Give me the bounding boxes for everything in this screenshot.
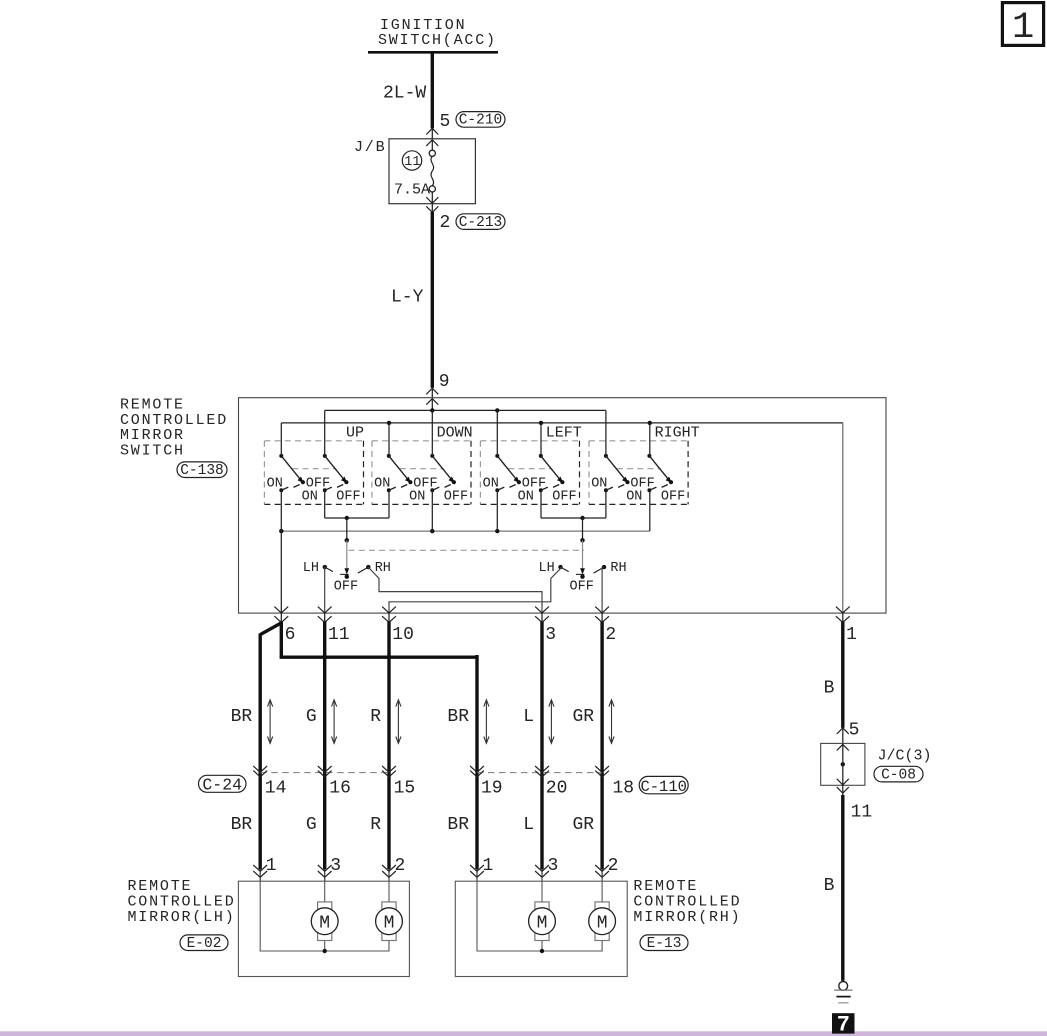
svg-text:15: 15 xyxy=(394,778,416,798)
svg-text:BR: BR xyxy=(231,815,253,835)
mirror pin 2 xyxy=(595,856,618,878)
wire RIGHT-A ON down xyxy=(605,490,607,518)
svg-text:C-08: C-08 xyxy=(881,767,916,783)
ground symbol xyxy=(834,982,852,1003)
junction xyxy=(580,516,584,520)
trunk wire 18/GR xyxy=(600,622,603,870)
trunk wire 16/G xyxy=(323,622,326,870)
exit stubs xyxy=(281,613,843,622)
svg-text:R: R xyxy=(370,707,381,727)
mirror pin 1 xyxy=(470,856,493,878)
svg-text:11: 11 xyxy=(404,155,420,170)
wire to LH/RH selector 1 pole xyxy=(346,518,348,540)
svg-text:1: 1 xyxy=(1012,7,1034,49)
pin 10 exit xyxy=(382,607,414,645)
mirror switch box C-138 xyxy=(239,398,887,613)
RH inner wiring xyxy=(477,877,602,951)
pin 1 exit xyxy=(836,607,857,645)
svg-text:ON: ON xyxy=(518,490,534,505)
svg-text:ON: ON xyxy=(626,490,642,505)
svg-text:RIGHT: RIGHT xyxy=(655,425,700,442)
wire horizontal-motor link xyxy=(541,517,606,519)
switch DOWN-A xyxy=(387,454,413,492)
wire LEFT-B ON down xyxy=(540,490,542,518)
svg-text:ON: ON xyxy=(591,477,607,492)
bus 1 xyxy=(325,409,606,411)
svg-text:BR: BR xyxy=(447,815,469,835)
wire B lower (thick) xyxy=(841,795,844,981)
wire feed LEFT-A xyxy=(496,410,498,456)
motor M (RH vertical) xyxy=(529,902,556,941)
capsule C-24 xyxy=(199,775,247,794)
svg-text:20: 20 xyxy=(546,778,568,798)
mirror box LH xyxy=(238,881,409,976)
wire feed RIGHT-A xyxy=(605,410,607,456)
BR branch bus (thick) xyxy=(280,656,477,659)
fuse 11 xyxy=(402,151,421,170)
pin 6 thick wire continues xyxy=(280,622,283,658)
mirror pin 3 xyxy=(535,856,558,878)
wire feed UP-A xyxy=(280,423,282,456)
switch LEFT-B xyxy=(539,454,565,492)
svg-text:G: G xyxy=(306,707,317,727)
svg-text:7.5A: 7.5A xyxy=(394,182,430,199)
harness arrow xyxy=(332,700,337,744)
svg-text:LEFT: LEFT xyxy=(546,425,582,442)
svg-text:SWITCH(ACC): SWITCH(ACC) xyxy=(378,32,497,49)
svg-text:C-110: C-110 xyxy=(640,778,687,796)
page number box 1 (top right) xyxy=(1002,3,1043,49)
svg-text:2L-W: 2L-W xyxy=(383,84,426,104)
trunk wire 20/L xyxy=(540,622,543,870)
harness arrow xyxy=(396,700,401,744)
connector row C-24 dashed xyxy=(260,772,389,774)
svg-text:2: 2 xyxy=(605,625,616,645)
switch RIGHT-A xyxy=(604,454,630,492)
LH inner wiring xyxy=(260,877,389,951)
jog to BR wire xyxy=(260,623,281,635)
bus2 junction dots xyxy=(387,421,391,425)
wire LEFT-A ON to bus 3 xyxy=(496,490,498,531)
motor M (LH horizontal) xyxy=(376,902,403,941)
svg-text:7: 7 xyxy=(837,1012,850,1036)
svg-text:C-138: C-138 xyxy=(180,463,224,479)
wire UP-B ON down xyxy=(324,490,326,518)
svg-text:11: 11 xyxy=(328,625,350,645)
connector pin 19 xyxy=(470,766,503,798)
svg-text:18: 18 xyxy=(613,778,635,798)
svg-text:1: 1 xyxy=(846,625,857,645)
svg-text:R: R xyxy=(370,815,381,835)
mechanical linkage (dashed) xyxy=(349,549,585,551)
connector pin 15 xyxy=(382,766,415,798)
crossover wire to pin 3 xyxy=(368,567,542,613)
dashed box RIGHT xyxy=(589,440,688,442)
wire B upper (thick) xyxy=(841,622,844,728)
junction xyxy=(345,516,349,520)
svg-text:ON: ON xyxy=(267,477,283,492)
svg-text:5: 5 xyxy=(440,112,451,132)
pin 3 exit xyxy=(535,607,556,645)
J/C(3) box xyxy=(821,743,865,785)
svg-text:2: 2 xyxy=(608,856,619,876)
wire feed DOWN-B xyxy=(431,410,433,456)
wire RIGHT-B ON to bus 3 xyxy=(649,490,651,531)
mirror pin 1 xyxy=(253,856,276,878)
bottom lavender strip xyxy=(0,1031,1047,1036)
pin 1 wire inside box xyxy=(842,423,844,613)
mirror box RH xyxy=(455,881,627,976)
svg-text:ON: ON xyxy=(302,490,318,505)
svg-text:E-02: E-02 xyxy=(187,936,222,952)
wire L-Y (thick feed) xyxy=(431,212,434,388)
switch DOWN-B xyxy=(430,454,456,492)
section DOWN xyxy=(372,425,473,505)
pin 11 exit xyxy=(318,607,350,645)
mirror entry stubs xyxy=(260,869,602,881)
svg-text:2: 2 xyxy=(395,856,406,876)
svg-text:L-Y: L-Y xyxy=(391,287,424,307)
svg-text:MIRROR(LH): MIRROR(LH) xyxy=(128,909,236,926)
harness arrow xyxy=(268,700,273,744)
svg-text:C-210: C-210 xyxy=(459,113,503,129)
svg-text:ON: ON xyxy=(374,477,390,492)
harness arrow xyxy=(549,700,554,744)
svg-text:OFF: OFF xyxy=(661,490,685,505)
wire feed RIGHT-B xyxy=(649,423,651,456)
crossover wire to pin 10 xyxy=(389,567,562,613)
motor M (LH vertical) xyxy=(311,902,338,941)
trunk wire 14/BR xyxy=(259,634,262,870)
svg-text:L: L xyxy=(523,707,534,727)
svg-text:OFF: OFF xyxy=(336,490,360,505)
connector row C-110 dashed xyxy=(477,772,602,774)
J/C junction dot xyxy=(841,762,845,766)
page link box 7 xyxy=(832,1012,855,1036)
wire feed DOWN-A xyxy=(388,423,390,456)
svg-text:ON: ON xyxy=(483,477,499,492)
svg-text:9: 9 xyxy=(439,372,450,392)
svg-text:B: B xyxy=(824,876,835,896)
pin 2 wire xyxy=(601,567,603,613)
wire feed UP-B xyxy=(324,410,326,456)
svg-text:BR: BR xyxy=(231,707,253,727)
harness arrow xyxy=(609,700,614,744)
svg-text:C-213: C-213 xyxy=(459,215,503,231)
dashed box LEFT xyxy=(480,440,579,442)
svg-text:3: 3 xyxy=(545,625,556,645)
svg-text:19: 19 xyxy=(481,778,503,798)
pin 6 wire inside box xyxy=(280,490,282,613)
svg-text:1: 1 xyxy=(266,856,277,876)
svg-text:C-24: C-24 xyxy=(202,776,242,795)
svg-text:GR: GR xyxy=(572,707,594,727)
svg-text:UP: UP xyxy=(346,425,364,442)
svg-text:14: 14 xyxy=(265,778,287,798)
wire to LH/RH selector 2 pole xyxy=(582,518,584,540)
svg-text:G: G xyxy=(306,815,317,835)
svg-text:11: 11 xyxy=(851,802,873,822)
section UP xyxy=(264,425,364,505)
svg-text:3: 3 xyxy=(330,856,341,876)
svg-text:J/C(3): J/C(3) xyxy=(878,748,932,765)
wire feed LEFT-B xyxy=(540,423,542,456)
svg-text:OFF: OFF xyxy=(552,490,576,505)
svg-text:J/B: J/B xyxy=(354,139,386,156)
trunk wire 15/R xyxy=(387,622,390,870)
section RIGHT xyxy=(589,425,700,505)
pin 2 exit xyxy=(595,607,616,645)
svg-text:B: B xyxy=(824,678,835,698)
svg-text:1: 1 xyxy=(483,856,494,876)
svg-text:10: 10 xyxy=(392,625,414,645)
svg-text:GR: GR xyxy=(572,815,594,835)
connector pin 14 xyxy=(253,766,286,798)
switch UP-B xyxy=(323,454,349,492)
svg-text:6: 6 xyxy=(285,625,296,645)
connector pin 16 xyxy=(318,766,351,798)
svg-text:ON: ON xyxy=(409,490,425,505)
svg-text:OFF: OFF xyxy=(444,490,468,505)
svg-text:16: 16 xyxy=(329,778,351,798)
pin 6 exit xyxy=(274,607,295,645)
svg-text:3: 3 xyxy=(548,856,559,876)
dashed box DOWN xyxy=(372,440,471,442)
ignition bus bar xyxy=(368,51,498,54)
section LEFT xyxy=(480,425,581,505)
svg-text:L: L xyxy=(523,815,534,835)
wire DOWN-A ON down xyxy=(388,490,390,518)
svg-text:SWITCH: SWITCH xyxy=(120,443,185,460)
trunk wire 19/BR xyxy=(475,655,478,869)
selector LH/OFF/RH (left) xyxy=(303,538,391,595)
svg-text:BR: BR xyxy=(447,707,469,727)
selector 1 pivot xyxy=(345,538,349,542)
svg-text:MIRROR(RH): MIRROR(RH) xyxy=(633,909,741,926)
capsule E-02 xyxy=(180,935,228,952)
wire vertical-motor link xyxy=(325,517,389,519)
switch UP-A xyxy=(279,454,305,492)
capsule E-13 xyxy=(640,935,688,952)
dashed box UP xyxy=(264,440,363,442)
motor M (RH horizontal) xyxy=(589,902,616,941)
svg-text:E-13: E-13 xyxy=(647,936,682,952)
capsule C-110 xyxy=(639,776,688,795)
switch RIGHT-B xyxy=(647,454,673,492)
selector 2 pivot xyxy=(580,538,584,542)
connector pin 18 xyxy=(595,766,634,798)
svg-text:2: 2 xyxy=(440,213,451,233)
svg-text:5: 5 xyxy=(849,720,860,740)
harness arrow xyxy=(484,700,489,744)
bus 3 (common, gray) xyxy=(281,530,650,532)
bus 2 xyxy=(281,422,843,424)
pin 11 wire xyxy=(324,567,326,613)
wire 2L-W (thick feed) xyxy=(431,52,434,128)
mirror pin 3 xyxy=(318,856,341,878)
mirror pin 2 xyxy=(382,856,405,878)
selector LH/OFF/RH (right) xyxy=(538,538,626,595)
svg-text:DOWN: DOWN xyxy=(437,425,473,442)
switch LEFT-A xyxy=(495,454,521,492)
wire DOWN-B ON to bus 3 xyxy=(431,490,433,531)
bus1 junction dots xyxy=(430,408,434,412)
connector pin 20 xyxy=(535,766,567,798)
capsule C-08 xyxy=(874,766,923,783)
